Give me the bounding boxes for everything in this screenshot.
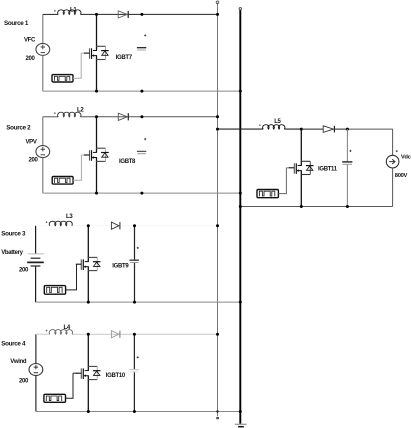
node bus bottom terminal: [216, 417, 219, 419]
wire source 1 left leg upper: [42, 14, 44, 43]
wire source 3 top right segment (faint): [72, 225, 218, 227]
wire capacitor C4 upper lead: [133, 334, 135, 369]
wire source 4 top mid segment: [72, 333, 134, 335]
capacitor C4: [129, 370, 138, 372]
node source 3 cap-top junction: [133, 224, 136, 227]
diode D3: [111, 222, 119, 229]
transistor IGBT7: [96, 14, 98, 50]
svg-text:IGBT11: IGBT11: [318, 167, 338, 173]
node stage2 cap-top junction: [346, 128, 349, 131]
svg-text:Vbattery: Vbattery: [1, 250, 23, 256]
diode D1: [118, 11, 127, 18]
svg-text:IGBT10: IGBT10: [106, 373, 126, 379]
wire source 2 left leg lower: [42, 158, 44, 194]
diode D4: [111, 331, 119, 338]
node source 3 switch-bottom junction: [87, 301, 90, 304]
polarity mark capacitor C4: [137, 356, 139, 358]
wire source 3 top left segment (faint): [36, 225, 50, 227]
polarity mark capacitor C5: [349, 150, 351, 152]
node thin bus bottom crossing: [216, 410, 218, 412]
pulse generator PWM5: [257, 190, 278, 198]
node stage2 switch-bottom junction: [300, 205, 303, 208]
voltage source VPV: [36, 146, 50, 158]
node source 2 switch-bottom junction: [95, 192, 98, 195]
wire source 1 top right segment to bus: [142, 13, 218, 15]
node bus top open terminal: [216, 1, 219, 4]
wire source 2 top left segment: [43, 116, 58, 118]
wire source 1 top mid segment: [80, 13, 141, 15]
node source 1 cap-top junction: [140, 13, 143, 16]
svg-text:Source 3: Source 3: [1, 231, 26, 238]
node return bus top open terminal: [239, 8, 241, 10]
ground: [235, 423, 247, 425]
voltage source Vdc (load): [386, 155, 399, 168]
node source 1 bus junction: [216, 13, 219, 16]
capacitor C5: [342, 162, 352, 164]
polarity mark inductor L5: [259, 124, 261, 126]
node stage2 return bus junction: [239, 205, 242, 208]
wire gate route PWM1: [73, 53, 81, 78]
pulse generator PWM2: [52, 177, 73, 185]
transistor IGBT10: [87, 334, 89, 370]
wire gate route PWM4: [66, 373, 74, 398]
wire stage2 diode to cap node: [335, 128, 348, 130]
node stage2 switch-top junction: [300, 128, 303, 131]
wire capacitor C5 upper lead: [346, 129, 348, 161]
polarity mark capacitor C1: [144, 34, 146, 36]
polarity mark inductor L4: [46, 330, 48, 332]
wire stage2 switch node to diode: [301, 128, 323, 130]
pulse generator PWM4: [44, 394, 66, 402]
wire stage2 bottom rail: [240, 206, 392, 208]
wire source 3 bottom rail: [36, 301, 241, 303]
node source 1 return bus junction: [239, 90, 242, 93]
node source 1 cap-bottom junction: [140, 90, 143, 93]
svg-text:L2: L2: [77, 108, 84, 114]
svg-text:200: 200: [29, 158, 39, 164]
polarity mark capacitor C2: [144, 138, 146, 140]
wire stage2 from bus to L5: [218, 128, 264, 130]
node source 4 switch-top junction: [87, 333, 90, 336]
svg-text:L1: L1: [70, 7, 77, 13]
node source 4 cap-bottom junction: [133, 410, 136, 413]
node stage2 cap-bottom junction: [346, 205, 349, 208]
svg-text:200: 200: [26, 56, 36, 62]
diode D5: [323, 126, 333, 133]
wire capacitor C4 lower lead: [133, 371, 135, 411]
voltage source VFC: [36, 43, 50, 55]
wire common positive bus (thin vertical): [217, 3, 219, 417]
node source 1 switch-top junction: [95, 13, 98, 16]
pulse generator PWM3: [44, 286, 65, 295]
node source 3 return bus junction: [239, 301, 242, 304]
wire capacitor C3 upper lead: [134, 226, 136, 260]
wire common return bus (thick vertical): [239, 10, 241, 424]
svg-text:Vdc: Vdc: [401, 155, 412, 161]
capacitor C1: [137, 48, 146, 50]
wire stage2 L5 to switch node: [284, 128, 301, 130]
wire source 1 bottom rail: [43, 90, 241, 92]
battery Vbattery: [27, 254, 44, 266]
wire source 4 top right segment to bus: [134, 333, 217, 335]
wire source 1 left leg lower: [42, 55, 44, 91]
wire source 1 top left segment: [43, 13, 58, 15]
svg-text:Vwind: Vwind: [10, 359, 27, 365]
pulse generator PWM1: [52, 75, 73, 82]
wire source 4 bottom rail: [36, 411, 240, 413]
svg-text:Source 4: Source 4: [1, 341, 26, 348]
polarity mark capacitor C3: [137, 247, 139, 249]
svg-text:200: 200: [19, 268, 29, 274]
svg-text:IGBT9: IGBT9: [112, 264, 129, 270]
svg-text:L3: L3: [66, 214, 73, 220]
node source 3 switch-top junction: [87, 224, 90, 227]
capacitor C3: [130, 260, 139, 262]
svg-text:IGBT7: IGBT7: [116, 55, 133, 61]
inductor L3: [49, 221, 72, 225]
wire capacitor C5 lower lead: [346, 165, 348, 207]
transistor IGBT11: [300, 129, 302, 165]
svg-text:Source 2: Source 2: [6, 124, 31, 131]
svg-text:200: 200: [19, 378, 29, 384]
polarity mark inductor L3: [46, 221, 48, 223]
node source 2 cap-top junction: [140, 115, 143, 118]
svg-text:L5: L5: [274, 119, 281, 125]
wire source 2 left leg upper: [42, 117, 44, 146]
inductor L4: [49, 330, 72, 335]
wire gate route PWM3: [66, 264, 77, 290]
inductor L1: [58, 10, 81, 15]
svg-text:Source 1: Source 1: [4, 20, 29, 27]
wire source 2 top mid segment: [80, 116, 141, 118]
transistor IGBT9: [87, 226, 89, 262]
node source 2 cap-bottom junction: [140, 192, 143, 195]
node source 4 cap-top junction: [133, 333, 136, 336]
node source 3 bus junction: [216, 224, 219, 227]
wire source 4 top left segment: [36, 333, 50, 335]
polarity mark inductor L2: [54, 112, 56, 114]
wire source 3 left leg upper: [35, 226, 37, 254]
wire source 2 bottom rail: [43, 192, 241, 194]
polarity mark inductor L1: [54, 10, 56, 12]
transistor IGBT8: [96, 117, 98, 153]
wire source 4 left leg upper: [35, 334, 37, 363]
node source 4 bus junction: [216, 333, 219, 336]
svg-text:VPV: VPV: [26, 140, 37, 146]
node source 4 switch-bottom junction: [87, 410, 90, 413]
node source 1 switch-bottom junction: [95, 90, 98, 93]
svg-text:VFC: VFC: [24, 38, 36, 44]
node source 4 return bus junction: [239, 410, 242, 413]
node stage2 bus tap: [216, 128, 219, 131]
inductor L5: [263, 125, 285, 129]
svg-text:800V: 800V: [395, 173, 408, 179]
wire capacitor C3 lower lead: [134, 262, 136, 302]
wire source 4 left leg lower: [35, 376, 37, 412]
wire load upper lead: [392, 129, 394, 155]
diode D2: [118, 113, 127, 120]
node source 2 bus junction: [216, 115, 219, 118]
wire gate route PWM2: [73, 155, 81, 180]
capacitor C2: [137, 151, 146, 153]
wire gate route PWM5: [278, 168, 286, 194]
wire load lower lead: [392, 168, 394, 207]
node source 2 return bus junction: [239, 192, 242, 195]
voltage source Vwind: [29, 364, 43, 376]
node source 3 cap-bottom junction: [133, 301, 136, 304]
node source 2 switch-top junction: [95, 115, 98, 118]
wire stage2 cap node to load top: [347, 128, 392, 130]
inductor L2: [58, 112, 81, 117]
wire source 2 top right segment to bus: [142, 116, 218, 118]
svg-text:L4: L4: [64, 325, 71, 331]
svg-text:IGBT8: IGBT8: [119, 159, 136, 165]
wire source 3 left leg lower: [35, 267, 37, 303]
polarity mark Vdc: [396, 150, 398, 152]
